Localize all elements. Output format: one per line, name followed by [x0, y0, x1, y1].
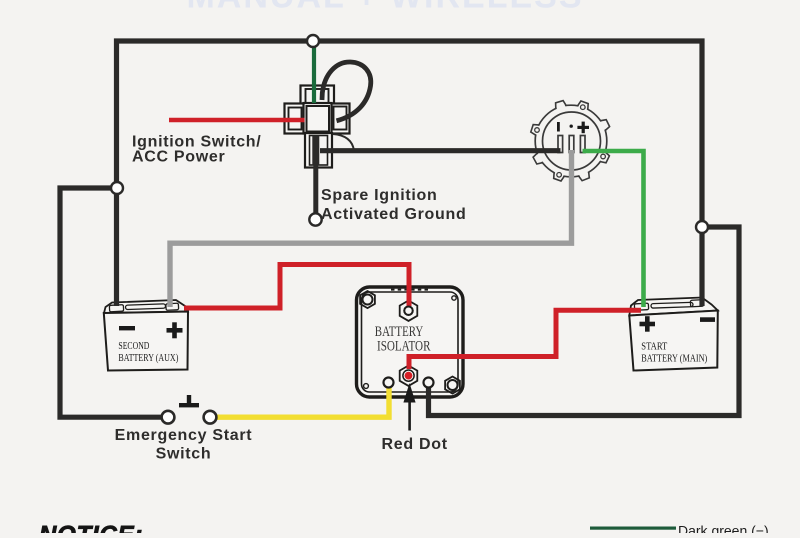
svg-text:SECOND: SECOND	[118, 340, 149, 352]
svg-text:BATTERY (MAIN): BATTERY (MAIN)	[641, 353, 707, 365]
svg-text:Red Dot: Red Dot	[382, 436, 448, 453]
svg-text:Emergency Start: Emergency Start	[115, 427, 253, 444]
svg-text:BATTERY (AUX): BATTERY (AUX)	[118, 352, 178, 364]
svg-text:Switch: Switch	[156, 446, 212, 463]
svg-text:ACC Power: ACC Power	[132, 149, 225, 166]
svg-text:Spare Ignition: Spare Ignition	[321, 187, 437, 204]
svg-text:Activated Ground: Activated Ground	[321, 206, 466, 223]
svg-text:Dark green (−): Dark green (−)	[678, 523, 769, 534]
svg-text:START: START	[641, 341, 667, 353]
svg-text:MANUAL + WIRELESS: MANUAL + WIRELESS	[186, 0, 583, 16]
svg-text:NOTICE:: NOTICE:	[39, 522, 143, 534]
svg-text:ISOLATOR: ISOLATOR	[377, 338, 431, 354]
